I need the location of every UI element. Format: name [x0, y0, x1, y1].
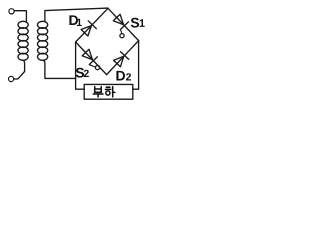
glyph 부 [93, 87, 103, 97]
wire bridge arm S2 (left to bottom) [76, 42, 107, 75]
label D1 [69, 15, 81, 26]
load box [84, 84, 133, 99]
wire secondary bottom [43, 60, 76, 78]
terminal bottom-left [9, 76, 14, 81]
diode D1 [81, 21, 96, 36]
label S2 [76, 68, 89, 78]
diode D2 [114, 52, 129, 67]
label S1 [131, 18, 145, 28]
thyristor S1 [113, 14, 128, 38]
wire secondary top to bridge top node [45, 8, 108, 21]
thyristor S2 [82, 49, 99, 69]
terminal top-left [9, 9, 14, 14]
glyph 하 [105, 87, 115, 97]
transformer secondary winding [38, 21, 48, 60]
wire primary bottom [14, 60, 25, 79]
transformer primary winding [18, 21, 28, 60]
wire bridge arm D1 (left to top) [76, 8, 108, 42]
load label "부하" drawn as strokes [93, 87, 115, 97]
wire bridge arm D2 (bottom to right) [107, 41, 139, 75]
wire right node down to load [133, 41, 139, 90]
wire primary top [14, 11, 26, 22]
wire bridge arm S1 (top to right) [108, 8, 139, 40]
wire left node down to load [76, 42, 85, 89]
label D2 [116, 71, 131, 81]
